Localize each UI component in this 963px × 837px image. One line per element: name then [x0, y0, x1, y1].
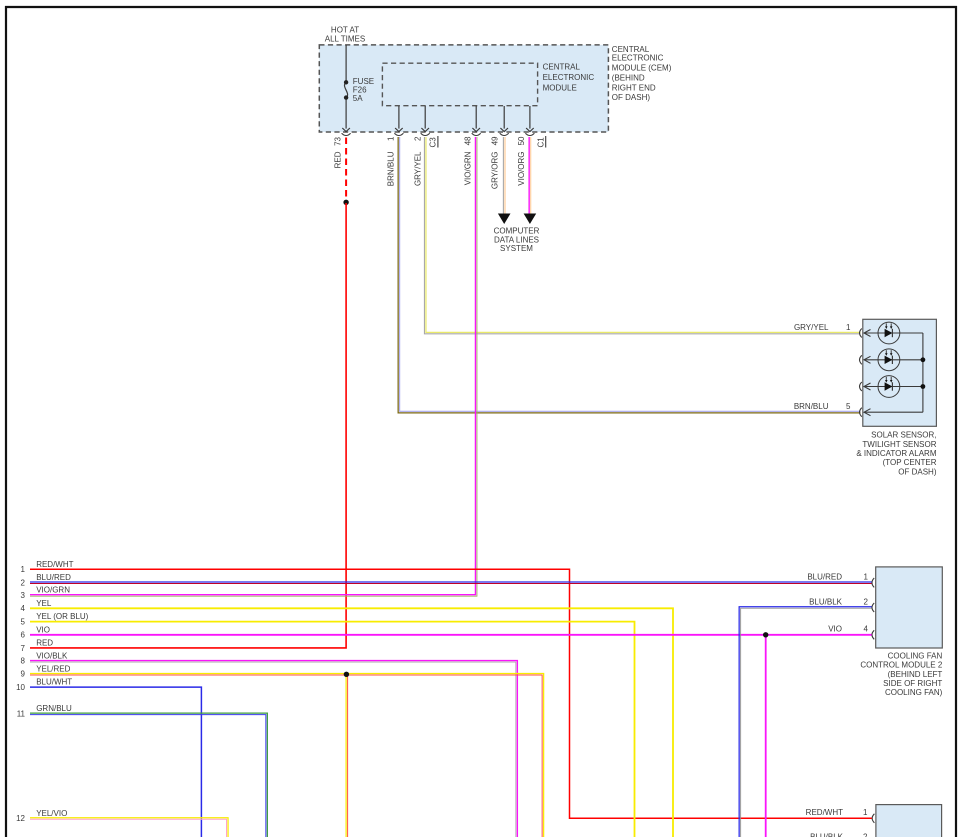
- svg-text:4: 4: [864, 625, 869, 634]
- svg-text:2: 2: [863, 833, 868, 837]
- svg-text:BLU/RED: BLU/RED: [807, 572, 842, 581]
- pin labels bottom module (1 RED/WHT, 2 BLU/BLK): [806, 808, 868, 837]
- svg-text:(BEHIND LEFT: (BEHIND LEFT: [888, 670, 943, 679]
- svg-text:COMPUTER: COMPUTER: [494, 227, 540, 236]
- wire 2 BLU/RED: [30, 581, 872, 583]
- pin 73 connector cup: [342, 133, 351, 135]
- svg-text:BLU/BLK: BLU/BLK: [809, 597, 843, 606]
- svg-text:6: 6: [21, 631, 26, 640]
- svg-text:RED/WHT: RED/WHT: [36, 560, 73, 569]
- svg-text:YEL/RED: YEL/RED: [36, 665, 70, 674]
- pin 1 connector cup: [872, 578, 874, 587]
- svg-text:& INDICATOR ALARM: & INDICATOR ALARM: [856, 449, 937, 458]
- svg-text:(BEHIND: (BEHIND: [612, 74, 645, 83]
- wire 10 BLU/WHT: [30, 687, 201, 837]
- label solar sensor caption: [856, 431, 937, 477]
- pin 48 stub: [475, 106, 477, 129]
- wire 9 YEL/RED branch down: [345, 675, 347, 837]
- arrow to computer data lines: [524, 214, 537, 225]
- svg-text:GRY/YEL: GRY/YEL: [413, 151, 422, 186]
- svg-text:ELECTRONIC: ELECTRONIC: [612, 54, 664, 63]
- svg-text:VIO: VIO: [828, 625, 842, 634]
- wire GRY/YEL from CEM pin2 to solar sensor pin1: [424, 137, 860, 334]
- left row numbers 1-12 and wire name labels: [16, 560, 89, 823]
- CEM pin stubs: [394, 106, 534, 136]
- svg-text:BLU/RED: BLU/RED: [36, 573, 71, 582]
- svg-text:ELECTRONIC: ELECTRONIC: [543, 73, 595, 82]
- pin number labels rotated: [386, 136, 526, 145]
- wire RED solid from junction down to row7 and left: [30, 203, 346, 648]
- pin 4 connector cup: [872, 630, 874, 639]
- svg-text:VIO/ORG: VIO/ORG: [517, 152, 526, 186]
- svg-text:VIO/BLK: VIO/BLK: [36, 652, 68, 661]
- photodiode D3: [878, 376, 900, 398]
- svg-text:TWILIGHT SENSOR: TWILIGHT SENSOR: [862, 440, 936, 449]
- wire name labels rotated: [386, 151, 526, 189]
- internal wire row1: [864, 332, 923, 334]
- photodiode D2: [878, 349, 900, 371]
- svg-text:(TOP CENTER: (TOP CENTER: [883, 458, 937, 467]
- junction dot VIO: [763, 632, 768, 637]
- svg-text:DATA LINES: DATA LINES: [494, 235, 539, 244]
- svg-text:10: 10: [16, 683, 25, 692]
- wire 9 YEL/RED: [30, 674, 544, 837]
- svg-text:BRN/BLU: BRN/BLU: [794, 402, 829, 411]
- pin 73 arrow out of CEM: [342, 128, 350, 132]
- svg-text:50: 50: [517, 136, 526, 145]
- wire 12 YEL/VIO: [30, 818, 228, 837]
- internal wire row2: [864, 359, 923, 361]
- svg-text:VIO/GRN: VIO/GRN: [36, 586, 70, 595]
- junction dot row3: [921, 384, 926, 389]
- svg-text:VIO: VIO: [36, 626, 50, 635]
- svg-text:RIGHT END: RIGHT END: [612, 84, 656, 93]
- svg-text:SYSTEM: SYSTEM: [500, 244, 533, 253]
- svg-text:8: 8: [21, 657, 26, 666]
- svg-text:GRY/YEL: GRY/YEL: [794, 323, 829, 332]
- module bottom (cooling fan control module 1) box: [876, 805, 942, 837]
- svg-text:2: 2: [21, 578, 26, 587]
- pin 49 stub: [503, 106, 505, 129]
- wire 8 VIO/BLK: [30, 661, 517, 837]
- svg-text:YEL: YEL: [36, 599, 52, 608]
- svg-text:1: 1: [846, 323, 851, 332]
- wire RED 73 dashed segment: [345, 138, 347, 201]
- module cooling fan control module 2 box: [876, 567, 943, 648]
- svg-text:VIO/GRN: VIO/GRN: [464, 151, 473, 185]
- svg-text:MODULE: MODULE: [543, 84, 577, 93]
- pin 2 arrow: [864, 356, 871, 363]
- module CEM outer dashed box: [319, 45, 608, 132]
- svg-text:OF DASH): OF DASH): [898, 467, 937, 476]
- svg-text:49: 49: [491, 136, 500, 145]
- pin 3 connector cup: [860, 382, 862, 391]
- arrow to computer data lines: [498, 214, 511, 225]
- svg-text:BLU/BLK: BLU/BLK: [810, 833, 844, 837]
- svg-text:YEL (OR BLU): YEL (OR BLU): [36, 612, 88, 621]
- internal wire row5: [864, 411, 923, 413]
- svg-text:1: 1: [21, 565, 26, 574]
- pin 1 connector cup: [872, 814, 874, 823]
- pin 5 arrow: [864, 409, 871, 416]
- wire 1 RED/WHT: [30, 569, 872, 818]
- svg-text:RED/WHT: RED/WHT: [806, 808, 843, 817]
- svg-text:3: 3: [21, 591, 26, 600]
- svg-text:2: 2: [413, 136, 422, 141]
- left rows wires: [30, 569, 872, 837]
- junction dot YEL/RED: [344, 672, 349, 677]
- pin labels cooling fan control module 2 (1 BLU/RED, 2 BLU/BLK, 4 VIO): [807, 572, 868, 633]
- svg-text:1: 1: [863, 808, 868, 817]
- pin 3 arrow: [864, 383, 871, 390]
- wire GRY/ORG from CEM pin49: [502, 137, 504, 214]
- svg-text:COOLING FAN: COOLING FAN: [888, 651, 943, 660]
- wire 5 YEL (OR BLU): [30, 622, 635, 837]
- svg-text:7: 7: [21, 644, 26, 653]
- svg-text:CONTROL MODULE 2: CONTROL MODULE 2: [860, 661, 942, 670]
- pin 2 connector cup: [860, 355, 862, 364]
- internal wire row3: [864, 386, 923, 388]
- wires main: [30, 137, 861, 648]
- border frame left: [5, 6, 7, 837]
- fuse F26 5A: [344, 45, 347, 129]
- pin labels solar sensor (1 GRY/YEL, 5 BRN/BLU): [794, 323, 851, 411]
- wire BRN/BLU from CEM pin1 to solar sensor pin5: [398, 137, 860, 413]
- svg-text:SIDE OF RIGHT: SIDE OF RIGHT: [883, 679, 942, 688]
- svg-text:SOLAR SENSOR,: SOLAR SENSOR,: [871, 431, 936, 440]
- label cooling fan module caption: [860, 651, 942, 697]
- svg-text:2: 2: [864, 597, 869, 606]
- photodiode D1: [878, 322, 900, 344]
- svg-text:YEL/VIO: YEL/VIO: [36, 809, 67, 818]
- wire VIO/ORG from CEM pin50: [528, 137, 530, 214]
- wire 11 GRN/BLU: [30, 713, 267, 837]
- node junction dot on RED: [343, 200, 348, 205]
- svg-text:ALL TIMES: ALL TIMES: [325, 35, 365, 44]
- svg-text:RED: RED: [36, 639, 53, 648]
- svg-text:COOLING FAN): COOLING FAN): [885, 688, 943, 697]
- label CENTRAL ELECTRONIC MODULE (inner): [543, 62, 595, 92]
- label CENTRAL ELECTRONIC MODULE (CEM) (BEHIND RIGHT END OF DASH): [612, 45, 672, 102]
- svg-text:1: 1: [386, 136, 395, 141]
- pin 1 connector cup: [860, 329, 862, 338]
- svg-text:5: 5: [846, 402, 851, 411]
- pin 5 connector cup: [860, 408, 862, 417]
- module solar sensor box: [863, 319, 937, 426]
- wire 6 VIO: [30, 634, 872, 636]
- svg-text:48: 48: [464, 136, 473, 145]
- svg-text:HOT AT: HOT AT: [331, 26, 359, 35]
- svg-text:BLU/WHT: BLU/WHT: [36, 678, 72, 687]
- svg-text:9: 9: [21, 670, 26, 679]
- pin 1 stub: [398, 106, 400, 129]
- pin 2 stub: [424, 106, 426, 129]
- svg-text:MODULE (CEM): MODULE (CEM): [612, 64, 672, 73]
- border frame top: [5, 6, 957, 8]
- junction dot row2: [921, 357, 926, 362]
- svg-text:CENTRAL: CENTRAL: [543, 62, 581, 71]
- svg-text:GRN/BLU: GRN/BLU: [36, 704, 72, 713]
- svg-text:BRN/BLU: BRN/BLU: [386, 151, 395, 186]
- internal bus vertical: [922, 333, 924, 412]
- svg-text:GRY/ORG: GRY/ORG: [491, 152, 500, 190]
- svg-text:OF DASH): OF DASH): [612, 93, 651, 102]
- wire 4 YEL: [30, 608, 673, 837]
- svg-text:4: 4: [21, 604, 26, 613]
- svg-text:73: 73: [334, 136, 343, 145]
- pin 2 connector cup: [872, 603, 874, 612]
- svg-text:12: 12: [16, 814, 25, 823]
- svg-text:5: 5: [21, 617, 26, 626]
- wire VIO/GRN from CEM pin48 down and left to row3: [30, 137, 475, 595]
- svg-text:11: 11: [17, 709, 26, 718]
- border frame right: [955, 6, 957, 837]
- svg-text:1: 1: [864, 572, 869, 581]
- svg-text:RED: RED: [334, 151, 343, 168]
- node HOT AT ALL TIMES: [325, 26, 365, 44]
- module CEM inner dashed box: [382, 63, 537, 105]
- svg-text:C1: C1: [537, 137, 546, 148]
- wire 6 VIO branch down: [765, 635, 767, 837]
- wire BLU/BLK vertical to cfm2 pin2: [739, 607, 871, 837]
- pin 50 stub: [529, 106, 531, 129]
- svg-text:C3: C3: [429, 137, 438, 148]
- label COMPUTER DATA LINES SYSTEM: [494, 227, 540, 254]
- pin 1 arrow: [864, 330, 871, 337]
- svg-text:5A: 5A: [353, 94, 363, 103]
